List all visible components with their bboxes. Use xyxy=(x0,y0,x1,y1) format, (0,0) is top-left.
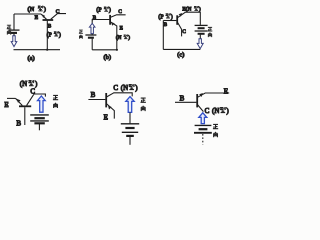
svg-text:E: E xyxy=(224,88,228,96)
battery BT(b) short plate xyxy=(88,37,94,39)
svg-text:(N: (N xyxy=(116,34,122,41)
wire battery-bottom diagram c xyxy=(199,35,201,39)
label (N型) of diagram a xyxy=(28,6,46,13)
svg-text:E: E xyxy=(4,101,8,109)
battery BT(b) long plate xyxy=(85,34,96,36)
svg-text:(c): (c) xyxy=(177,52,184,59)
battery BT(d) plate 3 long xyxy=(30,120,49,122)
emitter arrowhead Q(c) xyxy=(179,13,183,17)
bottom wire diagram a xyxy=(14,49,61,51)
current arrow (blue, up) bottom-right xyxy=(199,113,207,124)
svg-text:): ) xyxy=(59,31,61,38)
label C (N型) bottom-middle xyxy=(113,84,138,92)
transistor Q(e) base bar xyxy=(105,93,107,107)
wire C to arrow bottom-middle xyxy=(114,93,133,97)
emitter arrowhead Q(a) xyxy=(42,14,45,18)
label 正向 diagram a xyxy=(7,25,12,34)
transistor Q(d) collector lead xyxy=(27,94,34,105)
label C (N型) bottom-right xyxy=(205,107,230,115)
wire B horizontal bottom-right xyxy=(175,101,196,103)
battery BT(c) plate 4 short xyxy=(198,33,205,35)
svg-text:(N: (N xyxy=(212,107,219,115)
transistor Q(c) emitter lead xyxy=(178,12,186,17)
wire E horizontal bottom-left xyxy=(7,97,16,99)
battery BT(c) plate 3 long xyxy=(195,30,208,32)
bottom wire diagram b xyxy=(92,49,117,51)
wire C to arrow bottom-left xyxy=(34,94,46,97)
transistor Q(b) collector lead xyxy=(111,15,126,17)
svg-text:(N: (N xyxy=(20,80,27,88)
wire B vertical bottom-left xyxy=(24,107,26,125)
transistor Q(b) emitter lead xyxy=(111,22,117,50)
junction E/bottom-wire diagram b xyxy=(116,49,118,51)
emitter arrowhead Q(b) xyxy=(111,22,115,26)
wire E horizontal diagram a xyxy=(14,13,41,15)
svg-text:C: C xyxy=(113,84,118,92)
svg-text:E(N: E(N xyxy=(182,6,191,13)
junction B/bottom-wire diagram a xyxy=(46,49,48,51)
wire arrow to battery bottom-middle xyxy=(129,112,131,123)
current arrow (hollow, down) diagram a xyxy=(11,36,17,47)
svg-text:(a): (a) xyxy=(28,55,35,62)
battery BT(f) plate 3 long xyxy=(194,132,212,134)
transistor Q(a) base bar xyxy=(43,19,54,21)
transistor Q(c) collector lead xyxy=(178,23,182,37)
current arrow (hollow, down) diagram c xyxy=(197,39,203,49)
svg-text:C: C xyxy=(118,9,122,15)
left wire diagram c xyxy=(162,21,164,50)
battery stub wire (dashed) bottom-right xyxy=(202,134,204,145)
bottom wire diagram c xyxy=(163,48,200,50)
battery BT(a) long plate xyxy=(9,29,20,31)
svg-text:(P: (P xyxy=(47,31,52,38)
battery stub wire bottom-left xyxy=(38,124,40,130)
svg-text:C: C xyxy=(205,107,210,115)
label 正向 bottom-left xyxy=(53,95,58,108)
svg-text:): ) xyxy=(44,6,46,13)
label (N型) bottom-left xyxy=(20,80,38,88)
svg-text:): ) xyxy=(109,7,111,14)
transistor Q(f) emitter lead xyxy=(198,93,230,97)
svg-text:(b): (b) xyxy=(104,54,111,61)
wire B vertical diagram a xyxy=(46,21,48,50)
transistor Q(c) base bar xyxy=(176,15,178,24)
battery BT(e) plate 1 long xyxy=(121,123,139,125)
wire B horizontal diagram b xyxy=(93,19,110,21)
battery BT(f) plate 2 short xyxy=(199,128,208,130)
emitter arrowhead Q(d) xyxy=(16,99,20,103)
svg-text:(N: (N xyxy=(121,84,128,92)
battery BT(e) plate 3 long xyxy=(122,131,138,133)
transistor Q(a) emitter lead with arrow xyxy=(41,14,47,19)
battery BT(a) short plate xyxy=(11,32,17,34)
current arrow (blue, up) bottom-middle xyxy=(126,97,134,113)
transistor Q(e) emitter lead xyxy=(107,104,115,119)
svg-text:): ) xyxy=(171,13,173,20)
svg-text:E: E xyxy=(104,114,108,122)
wire battery-top vertical diagram a xyxy=(13,14,15,30)
transistor Q(a) collector lead xyxy=(51,14,66,20)
svg-text:C: C xyxy=(182,29,186,35)
svg-text:(P: (P xyxy=(96,7,101,14)
wire battery-top vertical diagram b xyxy=(91,20,93,35)
svg-text:B: B xyxy=(180,94,185,102)
battery BT(d) plate 1 long xyxy=(30,114,49,116)
emitter arrowhead Q(f) xyxy=(199,93,203,97)
label 正向 bottom-middle xyxy=(141,98,146,111)
transistor Q(f) base bar xyxy=(196,94,198,107)
junction B-wire/battery-wire diagram b xyxy=(92,19,94,21)
current arrow (hollow, up) diagram b xyxy=(89,23,95,33)
svg-text:C: C xyxy=(56,9,60,15)
battery stub wire bottom-middle xyxy=(129,137,131,145)
battery BT(d) plate 4 short xyxy=(34,122,44,124)
battery BT(e) plate 2 short xyxy=(125,127,134,129)
transistor Q(b) base bar xyxy=(109,15,111,25)
transistor Q(e) collector lead xyxy=(107,93,114,97)
transistor Q(d) emitter lead xyxy=(16,98,23,105)
svg-text:): ) xyxy=(128,34,130,41)
label (N型) of diagram b xyxy=(116,34,130,41)
label (P型) of diagram c xyxy=(158,13,172,20)
label 正向 bottom-right xyxy=(213,124,218,137)
battery BT(c) plate 2 short xyxy=(198,27,205,29)
transistor Q(f) collector lead xyxy=(198,105,204,112)
battery BT(f) plate 1 long xyxy=(195,124,212,126)
label 正向 diagram b xyxy=(79,30,83,39)
battery BT(d) plate 2 short xyxy=(34,117,44,119)
label (P型) of diagram a xyxy=(47,31,61,38)
svg-text:E: E xyxy=(35,15,39,21)
svg-text:(N: (N xyxy=(28,6,35,13)
svg-text:B: B xyxy=(91,91,96,99)
label E(N型) of diagram c xyxy=(182,6,201,13)
svg-text:(P: (P xyxy=(158,13,163,20)
wire battery-bottom diagram b xyxy=(91,39,93,50)
transistor Q(d) base bar xyxy=(19,105,31,107)
battery BT(c) plate 1 long xyxy=(195,24,208,26)
label 正向 diagram c xyxy=(208,27,213,37)
battery BT(e) plate 4 short xyxy=(126,135,134,137)
svg-text:): ) xyxy=(199,6,201,13)
svg-text:B: B xyxy=(16,120,21,128)
top wire diagram c xyxy=(185,12,201,25)
current arrow (blue, up) bottom-left xyxy=(38,96,46,112)
wire B horizontal diagram c xyxy=(163,20,176,22)
svg-text:E: E xyxy=(120,25,123,31)
wire B horizontal bottom-middle xyxy=(88,99,105,101)
wire battery-bottom diagram a xyxy=(13,34,15,36)
emitter arrowhead Q(e) xyxy=(108,105,112,109)
label (P型) of diagram b xyxy=(96,7,111,14)
